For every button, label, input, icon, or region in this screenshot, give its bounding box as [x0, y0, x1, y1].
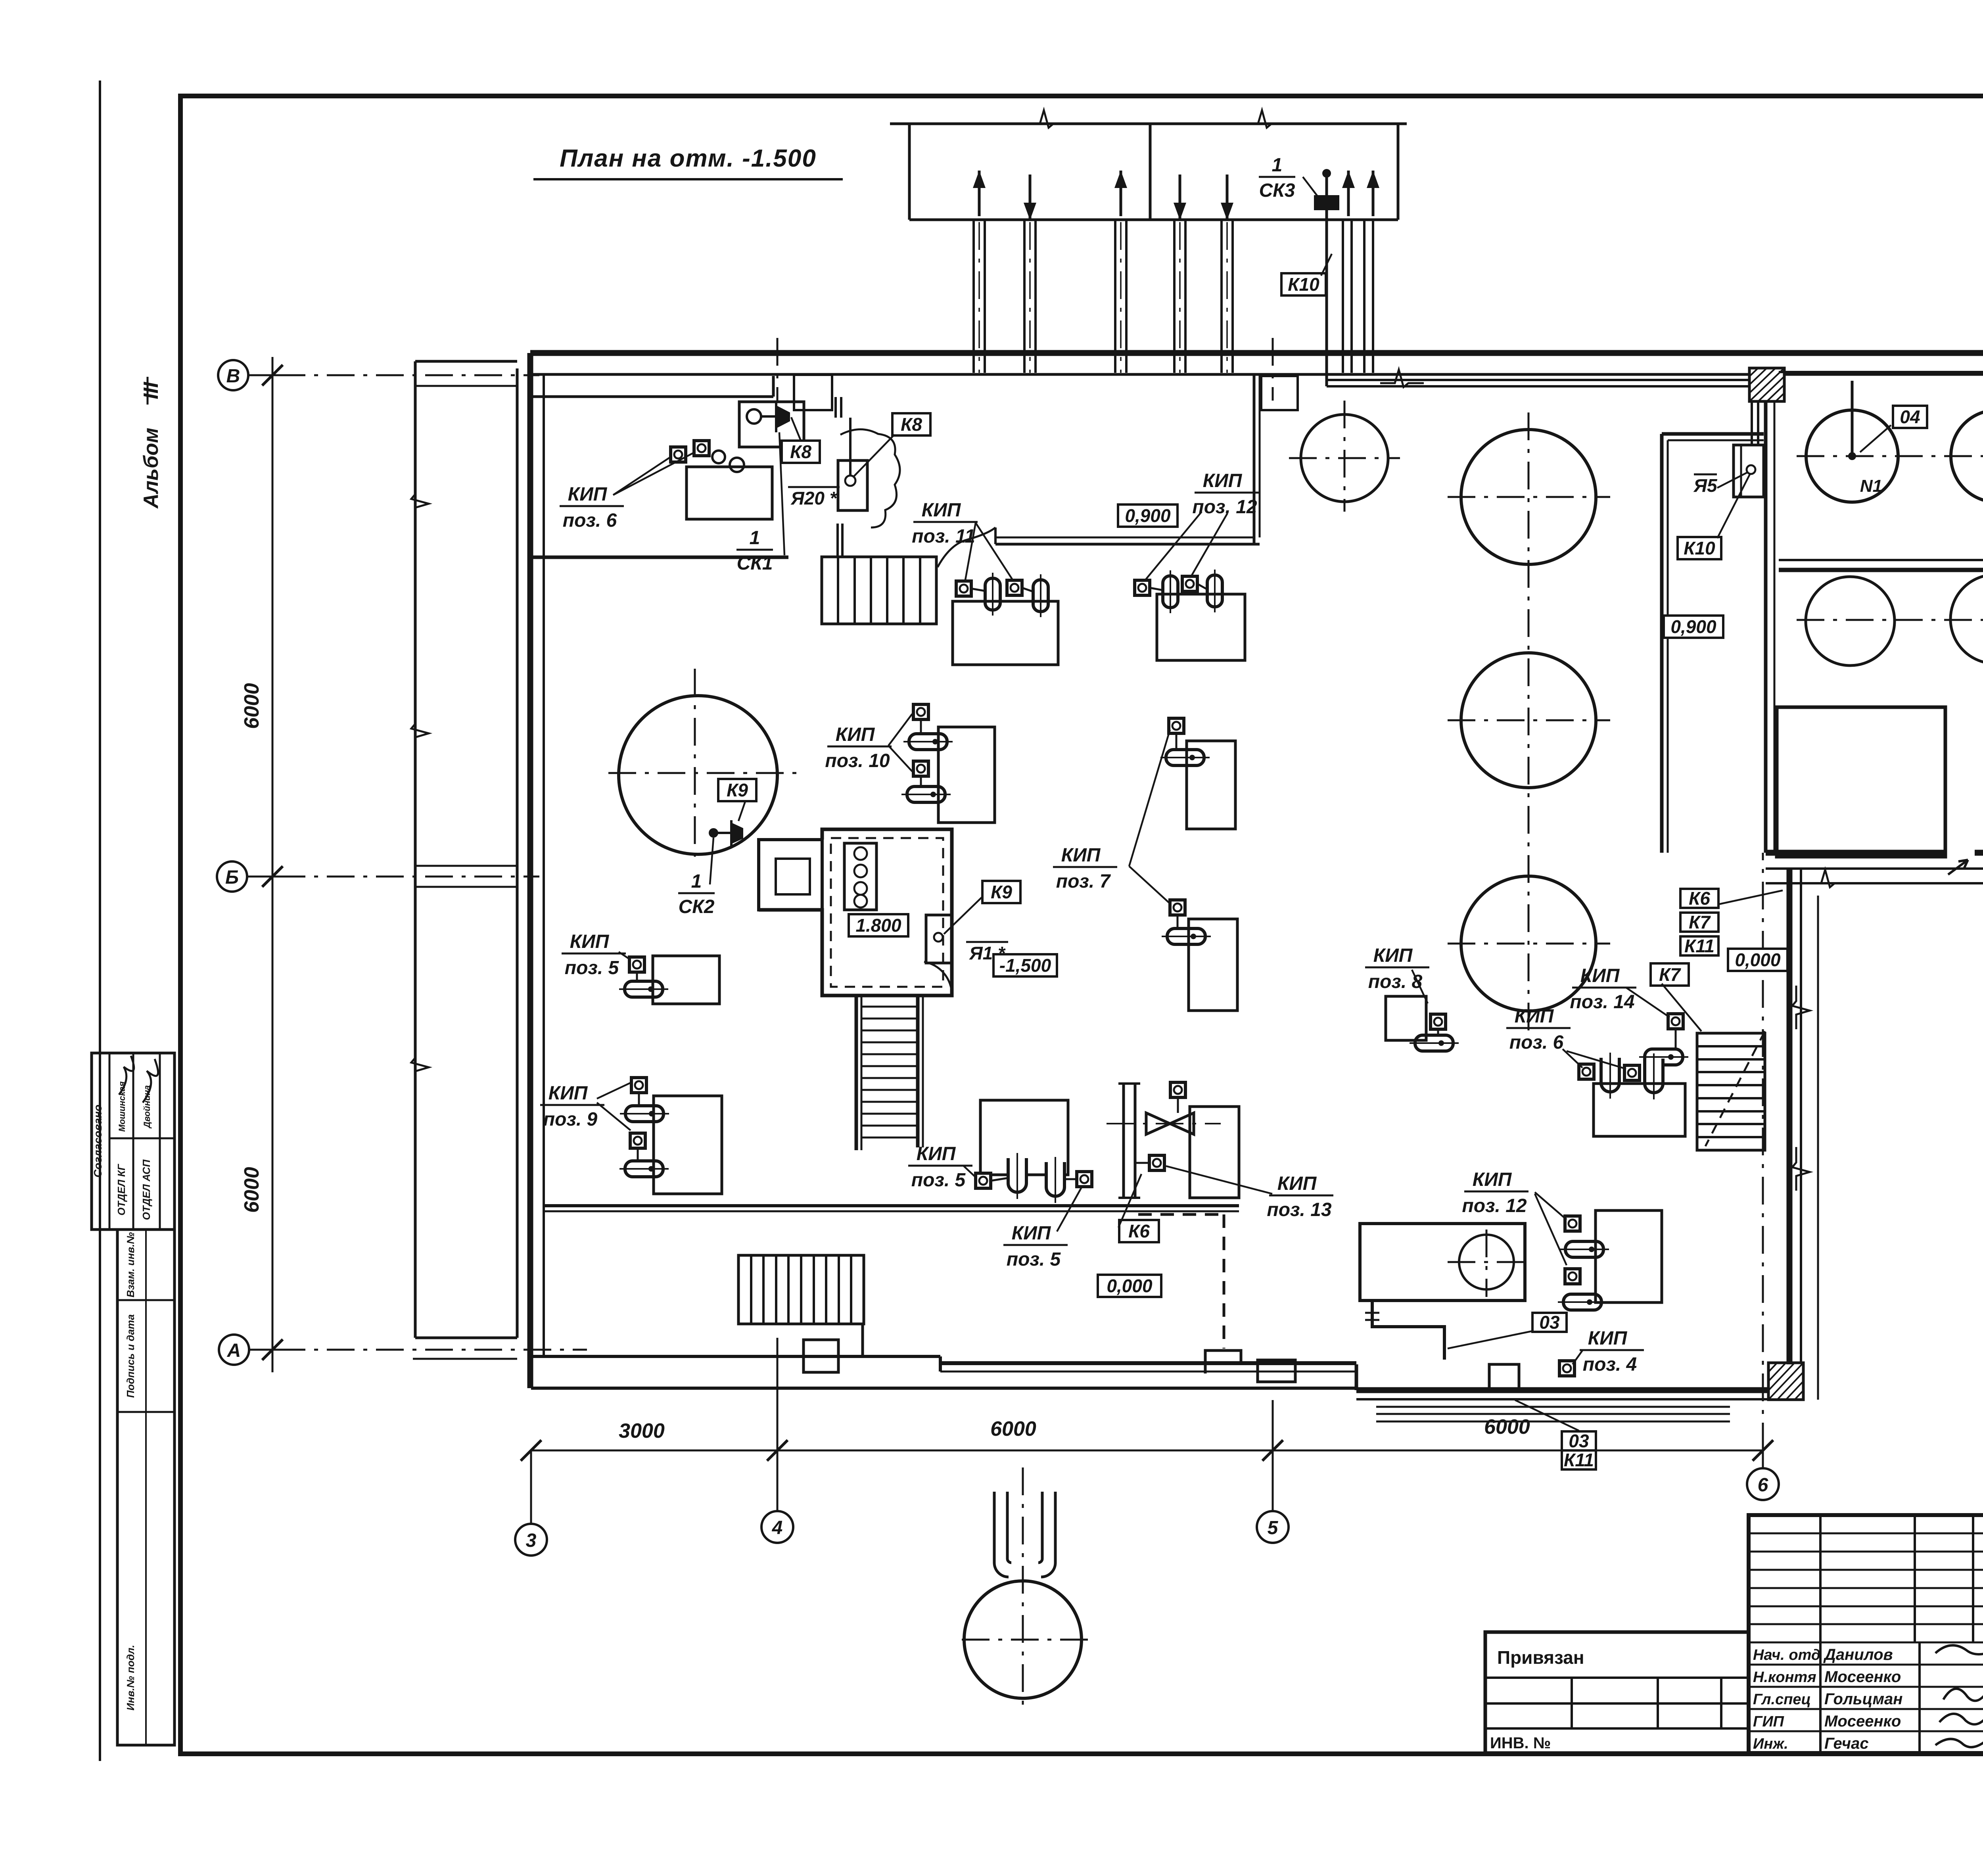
svg-text:1: 1 — [691, 871, 702, 892]
SK2 flag — [731, 823, 743, 844]
svg-text:КИП: КИП — [1515, 1006, 1554, 1027]
svg-text:В: В — [226, 366, 240, 387]
top structure divider — [1149, 124, 1152, 220]
poz11 bench — [953, 601, 1058, 665]
pump U — [1008, 1153, 1026, 1199]
N room bottom inner — [1779, 559, 1983, 561]
stair tread — [861, 1006, 918, 1008]
corridor top cap inner — [1668, 439, 1764, 441]
N1 stem — [1851, 381, 1854, 456]
room Ya5 — [1734, 445, 1764, 497]
label K10 corridor — [1678, 537, 1721, 559]
svg-text:СК2: СК2 — [679, 896, 715, 917]
svg-text:Взам. инв.№: Взам. инв.№ — [125, 1232, 136, 1298]
Ya20 device box — [838, 460, 867, 510]
svg-text:Данилов: Данилов — [1823, 1646, 1893, 1663]
control panel — [844, 843, 876, 910]
axis A stub — [249, 1349, 278, 1351]
svg-text:поз. 9: поз. 9 — [543, 1109, 598, 1130]
label SK2 — [678, 871, 715, 917]
pipe pair — [1173, 220, 1176, 373]
instrument cylinder — [1410, 1035, 1459, 1051]
vertical dimension line — [272, 357, 274, 1372]
axis circle B — [217, 861, 247, 892]
svg-text:поз. 11: поз. 11 — [912, 526, 975, 547]
corridor left wall outer — [1660, 434, 1664, 853]
SK1 flag — [776, 405, 790, 428]
instrument cylinder — [901, 786, 951, 802]
label KIP poz6 TL — [560, 484, 624, 531]
svg-text:К9: К9 — [727, 780, 748, 800]
label KIP poz8 — [1365, 945, 1429, 992]
svg-text:Б: Б — [225, 867, 239, 888]
digester 2 — [1461, 653, 1596, 788]
instrument square — [1565, 1269, 1580, 1284]
annex bottom line — [413, 1358, 517, 1360]
wall left inner — [543, 374, 545, 1356]
instrument cylinder — [1162, 928, 1211, 944]
door niche top wall — [794, 375, 832, 410]
svg-text:6000: 6000 — [240, 683, 263, 729]
door porch center — [1258, 1360, 1295, 1382]
poz6R bench — [1594, 1084, 1685, 1136]
svg-text:Гечас: Гечас — [1824, 1735, 1869, 1752]
axis 4 line — [777, 1338, 779, 1511]
instrument square — [913, 704, 928, 719]
digester 1 — [1461, 430, 1596, 564]
machine pipe valve — [1365, 1313, 1379, 1320]
annex right wall — [516, 368, 519, 1338]
elev 0.900 left — [1118, 504, 1178, 527]
svg-text:К11: К11 — [1684, 936, 1715, 956]
U pipe right — [1041, 1492, 1055, 1577]
wall bottom B lower — [940, 1371, 1356, 1373]
pump U — [1645, 1053, 1663, 1099]
svg-text:поз. 12: поз. 12 — [1192, 497, 1257, 518]
pier bottom right — [1768, 1363, 1803, 1400]
signatures squiggles — [1935, 1645, 1983, 1747]
door porch centre outline — [1205, 1350, 1241, 1373]
instrument poz4 — [1559, 1361, 1575, 1376]
inner room bottom wall inner — [995, 537, 1254, 539]
label K6 — [1119, 1220, 1159, 1242]
corridor feed pipe a — [1751, 401, 1753, 445]
elev 0.900 corridor — [1664, 616, 1723, 638]
instrument cylinder — [1160, 750, 1210, 765]
stair pipe b — [841, 524, 844, 557]
svg-text:Нач. отд: Нач. отд — [1753, 1647, 1820, 1663]
elev 1.800 — [849, 914, 908, 936]
valve bowtie — [1146, 1113, 1194, 1134]
instrument square — [1169, 718, 1184, 733]
top structure bottom line — [909, 219, 1398, 221]
privyazan box — [1485, 1632, 1749, 1753]
instrument square — [1135, 580, 1150, 595]
label KIP poz12 bottom — [1462, 1169, 1528, 1216]
approval stamp box — [92, 1053, 175, 1230]
K8 drop line — [849, 418, 852, 475]
stair big right rail — [916, 996, 920, 1147]
tank SK2 — [619, 696, 777, 854]
label 03 — [1532, 1312, 1567, 1333]
SK1 room wall nib — [772, 376, 775, 397]
instrument square — [1624, 1065, 1640, 1080]
SK3 down pipe — [1325, 210, 1328, 386]
Ya20 circle — [845, 476, 855, 486]
poz12R bench — [1596, 1210, 1662, 1302]
instrument square — [1007, 580, 1022, 595]
instrument cylinder — [619, 1161, 669, 1177]
label KIP poz6 right — [1506, 1006, 1571, 1053]
elev 0.000 left — [1098, 1275, 1161, 1297]
label KIP poz9 — [540, 1083, 604, 1130]
svg-text:ИНВ. №: ИНВ. № — [1490, 1734, 1551, 1752]
wall top inner left — [530, 373, 1766, 376]
corridor top cap outer — [1662, 432, 1764, 436]
room Ya5 inner line — [1740, 445, 1742, 497]
svg-text:К9: К9 — [991, 882, 1012, 902]
label KIP poz5 left — [562, 931, 626, 978]
pipe pair right — [1363, 220, 1365, 373]
inner room wall jog — [994, 528, 997, 544]
SK3 horizontal pipe a — [1327, 379, 1766, 381]
instrument square — [1565, 1216, 1580, 1231]
label KIP poz4 — [1580, 1328, 1644, 1375]
pump U — [1601, 1053, 1619, 1099]
svg-text:поз. 5: поз. 5 — [1007, 1249, 1061, 1270]
wall bottom A bottom — [531, 1387, 1356, 1390]
svg-text:N1: N1 — [1860, 476, 1882, 496]
flow arrow — [1174, 175, 1186, 220]
box Ya1 — [926, 915, 952, 963]
door arrow — [1948, 860, 1968, 875]
footing line right 2 — [1376, 1413, 1730, 1415]
svg-text:К6: К6 — [1128, 1221, 1150, 1241]
flow arrow — [1342, 171, 1355, 216]
svg-text:6000: 6000 — [240, 1167, 263, 1213]
footing wing — [1766, 882, 1983, 884]
top structure top line — [890, 123, 1407, 125]
svg-text:КИП: КИП — [1580, 965, 1620, 986]
svg-text:6: 6 — [1758, 1475, 1768, 1496]
instrument square — [976, 1173, 991, 1188]
poz5 left bench — [653, 956, 719, 1004]
svg-text:Подпись и дата: Подпись и дата — [125, 1314, 136, 1398]
instrument square — [1182, 576, 1197, 591]
svg-text:СК3: СК3 — [1259, 180, 1295, 201]
Ya5 circle — [1747, 465, 1755, 474]
flow arrow — [1221, 175, 1233, 220]
footing right vertical — [1817, 896, 1819, 1400]
dashed route across stairs — [1705, 1031, 1765, 1146]
inner room right wall outer — [1253, 374, 1256, 544]
svg-text:поз. 13: поз. 13 — [1267, 1199, 1332, 1220]
control room left cell — [759, 840, 822, 910]
axis B stub — [247, 876, 278, 878]
machine circle — [1459, 1235, 1514, 1289]
label 03 K11 stack — [1562, 1431, 1596, 1451]
poz6 extra circle — [712, 451, 725, 463]
label 04 — [1893, 406, 1927, 428]
pump U — [1046, 1157, 1064, 1203]
label KIP poz13 — [1267, 1173, 1333, 1220]
pipe pair — [1114, 220, 1116, 373]
pipe pair — [1023, 220, 1026, 373]
label KIP poz5 centre — [908, 1143, 972, 1191]
annex top inner — [415, 385, 517, 387]
svg-text:поз. 4: поз. 4 — [1583, 1354, 1637, 1375]
svg-text:Мосеенко: Мосеенко — [1824, 1713, 1901, 1730]
label Ya5 — [1693, 474, 1718, 496]
wall hall right outer — [1787, 869, 1793, 1364]
svg-text:КИП: КИП — [1277, 1173, 1317, 1194]
poz7 bench 1 — [1187, 741, 1235, 829]
outfall circle — [964, 1581, 1082, 1698]
axis 6 line — [1762, 1450, 1764, 1468]
instrument square — [913, 761, 928, 776]
svg-text:Инв.№ подл.: Инв.№ подл. — [125, 1645, 136, 1711]
inner room bottom wall outer — [995, 543, 1260, 546]
label K7 — [1651, 963, 1689, 986]
svg-text:04: 04 — [1900, 407, 1920, 427]
revision grid — [1749, 1533, 1983, 1535]
bottom dimension line — [531, 1450, 1763, 1452]
tank low 1 — [1806, 577, 1895, 666]
instrument pump — [1163, 570, 1178, 613]
svg-text:КИП: КИП — [1203, 470, 1243, 491]
digester 3 — [1461, 876, 1596, 1011]
svg-text:Я20 *: Я20 * — [790, 488, 837, 508]
poz8 bench — [1386, 996, 1426, 1040]
N room bottom outer — [1779, 568, 1983, 572]
label K6 K7 K11 stack — [1680, 888, 1718, 909]
svg-text:СК1: СК1 — [737, 553, 773, 574]
wall bottom C inner — [1356, 1398, 1768, 1400]
label Ya20 text — [788, 487, 840, 508]
flow arrow — [973, 171, 986, 216]
control room outline — [759, 829, 952, 996]
instrument pump — [1033, 574, 1048, 617]
instrument square — [1579, 1064, 1594, 1079]
svg-text:поз. 6: поз. 6 — [1509, 1032, 1564, 1053]
poz5 centre bench — [980, 1100, 1068, 1175]
stair pipe a — [836, 524, 839, 557]
wall wing bottom w1 — [1766, 850, 1945, 856]
pipe pair right — [1342, 220, 1344, 373]
instrument pump — [985, 573, 1000, 616]
instrument square — [631, 1078, 646, 1093]
N room top line — [1779, 371, 1983, 373]
poz9 bench — [654, 1096, 722, 1194]
svg-text:Привязан: Привязан — [1497, 1647, 1584, 1668]
wall step x3420 — [1355, 1364, 1358, 1390]
top structure left wall — [908, 124, 911, 220]
axis 5 line — [1272, 1400, 1274, 1511]
svg-text:поз. 6: поз. 6 — [563, 510, 617, 531]
annex mid line B2 — [415, 886, 517, 888]
stamp signatures — [119, 1056, 134, 1095]
elev -1.500 — [993, 954, 1057, 976]
svg-text:К7: К7 — [1659, 964, 1681, 985]
svg-text:0,900: 0,900 — [1125, 505, 1171, 526]
dashed route v — [1223, 1214, 1225, 1348]
machine pipe — [1372, 1301, 1444, 1360]
K8 pipe a — [834, 397, 837, 418]
instrument square — [671, 447, 686, 462]
axis V stub — [248, 374, 278, 376]
axis 3 line — [530, 1450, 532, 1524]
svg-text:ГИП: ГИП — [1753, 1713, 1784, 1730]
label SK1 — [736, 528, 773, 574]
SK2 dot — [709, 828, 718, 838]
instrument square — [956, 581, 971, 596]
sampler SK3 dot — [1322, 169, 1331, 178]
stairs bottom left — [738, 1255, 864, 1324]
svg-text:КИП: КИП — [922, 500, 961, 521]
svg-text:Гольцман: Гольцман — [1824, 1690, 1902, 1708]
K8 cloud — [840, 429, 900, 528]
svg-text:Альбом: Альбом — [140, 428, 163, 509]
footing line right 1 — [1376, 1406, 1730, 1408]
control room inner square — [776, 859, 810, 894]
panel circles — [854, 847, 867, 860]
poz13 pipe a — [1122, 1084, 1125, 1198]
pump pit wall top — [544, 1204, 1239, 1207]
svg-text:Я5: Я5 — [1693, 475, 1718, 496]
svg-text:КИП: КИП — [1473, 1169, 1512, 1190]
label K8 right — [892, 413, 930, 435]
instrument cylinder — [1639, 1049, 1688, 1065]
svg-text:1.800: 1.800 — [855, 915, 901, 936]
svg-text:-1,500: -1,500 — [999, 955, 1051, 976]
svg-text:Согласовано: Согласовано — [92, 1105, 104, 1178]
control room dashed inner — [831, 838, 943, 987]
instrument cylinder — [620, 1106, 669, 1122]
label KIP poz14 — [1570, 965, 1636, 1013]
inventory stamp box — [117, 1230, 175, 1745]
svg-text:Двойнина: Двойнина — [142, 1085, 152, 1129]
svg-text:КИП: КИП — [570, 931, 610, 952]
label K10 top — [1281, 273, 1326, 295]
svg-text:поз. 5: поз. 5 — [911, 1170, 966, 1191]
svg-text:КИП: КИП — [836, 724, 875, 745]
svg-text:поз. 5: поз. 5 — [565, 957, 619, 978]
svg-text:К6: К6 — [1689, 888, 1710, 909]
svg-text:Мосеенко: Мосеенко — [1824, 1668, 1901, 1686]
instrument square — [1431, 1014, 1446, 1029]
svg-text:поз. 10: поз. 10 — [825, 750, 890, 771]
SK3 stem — [1325, 173, 1328, 195]
tank N2 — [1951, 410, 1983, 502]
wall bottom A top — [531, 1355, 940, 1358]
svg-text:Гл.спец: Гл.спец — [1753, 1691, 1811, 1708]
SK1 room inner top wall — [530, 395, 773, 398]
sheet left edge line — [99, 81, 101, 1761]
svg-text:5: 5 — [1268, 1517, 1279, 1538]
svg-text:поз. 7: поз. 7 — [1056, 871, 1111, 892]
svg-text:КИП: КИП — [1373, 945, 1413, 966]
corridor feed pipe b — [1757, 401, 1759, 445]
label KIP poz5 third — [1003, 1223, 1068, 1270]
svg-text:3: 3 — [526, 1530, 537, 1551]
poz6 extra circle2 — [730, 458, 744, 472]
Ya1 circle — [934, 933, 943, 942]
instrument cylinder — [1558, 1294, 1607, 1310]
annex mid line B1 — [415, 865, 517, 867]
instrument square — [1077, 1172, 1092, 1187]
instrument square — [629, 957, 644, 972]
instrument square — [1170, 1082, 1185, 1097]
door arc — [924, 962, 952, 995]
instrument square — [694, 441, 709, 456]
dashed route h1 — [1138, 1213, 1224, 1216]
machine bench — [1360, 1224, 1525, 1301]
tank low 2 — [1950, 575, 1983, 664]
instrument square — [1668, 1014, 1683, 1029]
corridor left wall inner — [1667, 440, 1669, 853]
svg-text:0,000: 0,000 — [1735, 950, 1781, 970]
top structure right wall — [1397, 124, 1400, 220]
axis circle A — [219, 1335, 249, 1365]
wall left outer — [527, 353, 533, 1388]
door frame bottom — [1489, 1364, 1519, 1390]
poz10 bench — [938, 727, 995, 823]
label K8 left — [782, 441, 820, 463]
svg-text:ОТДЕЛ КГ: ОТДЕЛ КГ — [115, 1164, 127, 1216]
tank N1 — [1806, 410, 1898, 502]
storage room — [1777, 707, 1945, 857]
label KIP poz12 top — [1192, 470, 1259, 518]
label KIP poz7 — [1053, 845, 1117, 892]
label K9 right — [982, 881, 1020, 903]
flow arrow — [1114, 171, 1127, 216]
wall hall right inner — [1800, 869, 1802, 1363]
annex bottom cap — [415, 1337, 517, 1339]
label Ya1 — [966, 942, 1008, 963]
door niche 2 — [1261, 376, 1298, 410]
flow arrow — [1367, 171, 1379, 216]
poz6 bench — [687, 467, 772, 519]
svg-text:поз. 14: поз. 14 — [1570, 992, 1634, 1013]
stairs top left — [822, 557, 936, 624]
label KIP poz11 — [912, 500, 978, 547]
svg-text:КИП: КИП — [1012, 1223, 1051, 1244]
svg-text:1: 1 — [750, 528, 760, 549]
svg-text:0,900: 0,900 — [1670, 616, 1716, 637]
wall wing bottom w2 — [1975, 850, 1983, 856]
wall bottom B outer — [940, 1361, 1356, 1365]
N1 dot — [1848, 452, 1856, 460]
wall wing bottom lower — [1766, 867, 1983, 870]
footing line right 3 — [1376, 1421, 1730, 1423]
poz13 pipe b — [1134, 1084, 1137, 1198]
pipe pair — [1220, 220, 1223, 373]
label KIP poz10 — [825, 724, 892, 771]
poz13 bench — [1190, 1107, 1239, 1198]
annex left wall — [414, 361, 417, 1338]
SK1 room bottom wall — [530, 556, 788, 559]
svg-text:А: А — [227, 1340, 241, 1361]
svg-text:поз. 12: поз. 12 — [1462, 1195, 1527, 1216]
svg-text:КИП: КИП — [548, 1083, 588, 1104]
label K9 left — [718, 779, 756, 801]
SK3 horizontal pipe b — [1327, 385, 1766, 387]
axis circle V — [218, 360, 248, 390]
flow arrow — [1024, 175, 1036, 220]
svg-text:КИП: КИП — [917, 1143, 956, 1164]
svg-text:К10: К10 — [1288, 274, 1319, 295]
SK1 square tank — [739, 402, 804, 447]
